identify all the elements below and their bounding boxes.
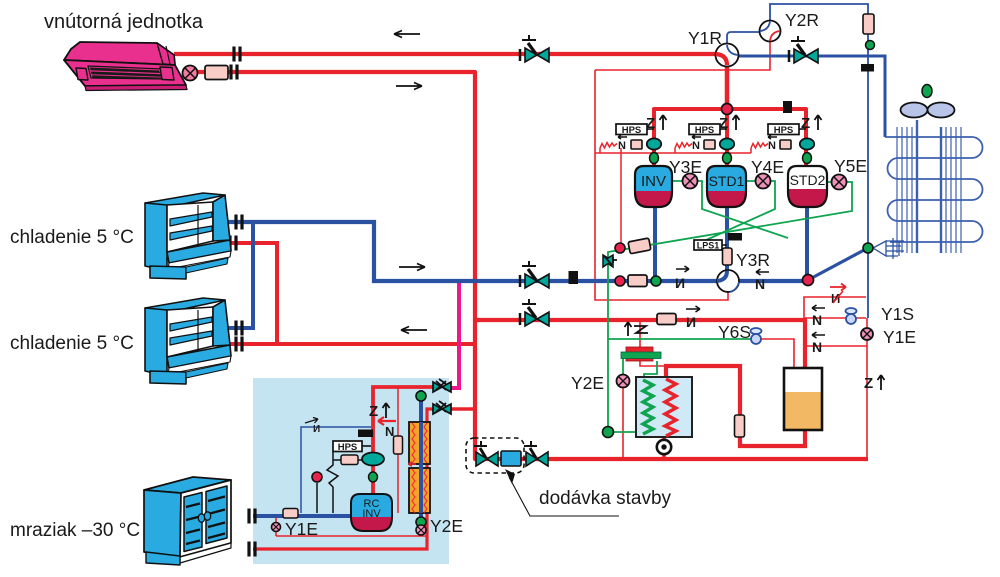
display case 1: [145, 193, 231, 279]
filter pink rect liquid line: [657, 314, 676, 325]
freezer box red service arrow-N: [378, 417, 396, 439]
green damper dot STD1 riser: [723, 153, 732, 164]
wire: oil solenoid line INV to Y3E and cross equalization: [672, 181, 788, 238]
filter pink rect receiver outlet: [735, 415, 745, 437]
junction green dot freezer HX top: [416, 391, 426, 401]
coil distributor triangle and comb: [873, 238, 904, 259]
svg-text:HPS: HPS: [622, 125, 642, 136]
check valve teal ellipse STD1 riser: [720, 138, 734, 149]
relief valve Z-arrow INV: [646, 115, 667, 132]
relief valve Z-arrow receiver side: [864, 375, 885, 392]
oil solenoid Y5E: [832, 175, 847, 190]
condenser coil fins group 1: [897, 127, 912, 253]
svg-text:Y3R: Y3R: [736, 250, 770, 270]
filter pink rect freezer discharge branch: [394, 436, 403, 454]
wire: gas line Y1R to condenser coil: [738, 56, 885, 137]
filter pink rect freezer suction: [283, 509, 298, 519]
wire: magenta cascade discharge line: [449, 281, 459, 388]
svg-text:Y1E: Y1E: [883, 327, 916, 347]
shutoff bars case1 liquid: [230, 236, 236, 251]
leader line to dodavka stavby: [509, 477, 619, 516]
relief valve Z-arrow freezer box: [369, 403, 390, 420]
reversing valve Y3R: [717, 270, 739, 292]
wire: receiver bottom to HX red coil feed: [666, 366, 805, 446]
wire: STD1 suction drop to Y3R: [725, 207, 729, 271]
expansion valve Y1E freezer: [272, 523, 281, 532]
check symbol arrow-I on liquid line: [686, 306, 700, 330]
svg-text:Z: Z: [646, 115, 655, 132]
oil solenoid Y4E: [756, 174, 771, 189]
junction red dot on discharge header: [722, 104, 733, 115]
freezer box bypass valve symbol: [305, 418, 320, 436]
filter pink rect suction line: [628, 275, 647, 287]
junction green dot freezer HX bottom: [416, 517, 426, 527]
check symbol arrow-I on suction line: [675, 266, 689, 291]
service valve arrow-N INV: [618, 135, 627, 152]
filter pink rect oil diagonal (rotated): [628, 238, 651, 254]
plate HX red coil: [665, 379, 676, 436]
shutoff bars freezer liquid: [249, 542, 255, 557]
svg-text:Y4E: Y4E: [751, 157, 784, 177]
wire: suction main from display case 1: [227, 222, 717, 281]
compressor INV body: [635, 166, 672, 207]
expansion valve Y2E freezer: [416, 525, 426, 535]
wire: suction diagonal to coil distributor: [808, 249, 866, 280]
oil solenoid Y3E: [683, 174, 698, 189]
compressor STD1 body: [707, 166, 746, 207]
red adjustable valve symbol upper loop: [830, 284, 846, 307]
economizer / capillary assembly: [621, 347, 661, 361]
wire: Y2E to economizer green stub: [622, 356, 624, 375]
shutoff bars case2 liquid: [236, 337, 242, 352]
svg-text:Y1S: Y1S: [881, 304, 914, 324]
solenoid valve Y1S: [846, 308, 857, 324]
compressor STD2 body: [788, 166, 827, 207]
green damper dot STD2 riser: [803, 153, 812, 164]
flow arrow case2 left: [401, 327, 427, 334]
wire: lower service line to Y1E: [805, 318, 867, 459]
svg-text:Y3E: Y3E: [669, 157, 702, 177]
wire: display case 1 red line: [228, 243, 277, 344]
freezer edge valve lower (liquid out): [433, 401, 451, 414]
shutoff bars case1 suction: [236, 215, 242, 230]
wire: INV HPS stub down to green oil line: [620, 148, 622, 243]
filter pink rect freezer oil line: [341, 455, 358, 465]
sensor black rect near LPS1: [728, 233, 742, 241]
wire: Y1R top to Y2R left: [727, 32, 760, 45]
wire: STD2 suction drop: [805, 207, 809, 279]
svg-text:N: N: [385, 424, 394, 439]
sensor black rect on suction line: [569, 271, 579, 284]
wire: Y1S line: [805, 317, 866, 319]
wire: Y2E liquid stem: [622, 387, 624, 459]
wire: thin red oil/equalization network left border: [595, 70, 728, 300]
junction red dot freezer box: [312, 472, 322, 482]
service valve arrow-N STD2: [768, 135, 777, 152]
relief valve Z-arrow STD2: [801, 115, 822, 132]
wire: right liquid/injection vertical: [867, 34, 869, 318]
compressor RC INV body (freezer unit): [351, 494, 392, 531]
flow arrow top left: [394, 31, 420, 38]
evaporator pressure regulator symbol: [625, 322, 649, 336]
freezer cabinet: [144, 477, 231, 565]
filter pink rect LPS1 riser: [723, 248, 733, 265]
shutoff bars case2 suction: [236, 321, 242, 336]
freezer box oil return zigzag line: [327, 452, 362, 513]
condenser coil header pipes: [917, 120, 941, 253]
svg-text:Y2E: Y2E: [571, 373, 604, 393]
svg-text:mraziak –30 °C: mraziak –30 °C: [10, 520, 140, 541]
wire: Y1R to compressor discharge header (red thick): [725, 64, 730, 109]
svg-text:HPS: HPS: [338, 442, 358, 453]
junction red dot suction line: [615, 276, 625, 286]
shutoff bars indoor gas: [234, 47, 240, 62]
check symbol arrow-N upper right loop: [812, 305, 825, 328]
wire: oil solenoid line STD1 to Y4E: [704, 181, 775, 241]
junction green dot coil distributor: [863, 243, 873, 253]
motorized valve on indoor gas line: [520, 35, 549, 62]
wire: freezer liquid injection thin red: [276, 515, 427, 536]
wire: right side bypass loop top (to blue vertical): [804, 297, 866, 319]
freezer edge valve upper (to magenta): [433, 379, 451, 392]
wire: Y6S red section into receiver top: [760, 339, 794, 368]
junction green dot liquid return top: [866, 41, 875, 50]
capillary zigzag INV: [600, 143, 617, 149]
flow arrow suction right: [399, 264, 425, 271]
svg-text:Y5E: Y5E: [834, 156, 867, 176]
junction green dot HX suction: [603, 427, 614, 438]
capillary zigzag STD1: [675, 143, 692, 149]
freezer cascade HX orange blocks: [409, 422, 430, 513]
dashed field-supply box: [466, 438, 524, 473]
wire: economizer stem from liquid line: [640, 319, 664, 366]
wire: INV suction drop: [653, 207, 657, 281]
wire: display case 2 red line: [225, 342, 475, 346]
capillary zigzag STD2: [751, 143, 768, 149]
svg-text:N: N: [618, 140, 626, 152]
svg-text:N: N: [755, 276, 765, 292]
LPS1 switch box: [694, 240, 727, 251]
svg-text:Y6S: Y6S: [718, 322, 751, 342]
condenser coil serpentine: [885, 137, 983, 242]
service valve on green equalization line: [603, 255, 617, 267]
HPS pressure switch INV: [616, 124, 654, 136]
freezer box green damper dot: [369, 472, 378, 482]
wire: freezer hot gas bypass thin blue: [301, 427, 371, 513]
field supply valve 1: [474, 441, 498, 466]
HPS pressure switch STD1: [689, 124, 727, 136]
wire: freezer cascade HX blue pipe: [419, 390, 423, 522]
svg-text:dodávka stavby: dodávka stavby: [539, 488, 672, 509]
svg-text:И: И: [831, 291, 840, 306]
svg-text:INV: INV: [362, 508, 381, 520]
indoor cassette unit: [64, 42, 187, 91]
HPS pressure switch STD2: [768, 124, 806, 136]
wire: indoor unit gas line (red thick): [174, 52, 717, 56]
wire: oil solenoid line STD2 to Y5E and long equalization diagonal: [608, 182, 852, 432]
shutoff bars indoor liquid: [231, 65, 237, 80]
svg-text:STD1: STD1: [709, 173, 745, 189]
svg-text:Y2E: Y2E: [430, 516, 463, 536]
sensor black rect freezer box: [358, 430, 373, 438]
check valve teal ellipse INV riser: [647, 138, 661, 149]
svg-text:И: И: [675, 275, 685, 291]
svg-text:STD2: STD2: [790, 172, 826, 188]
wire: suction vapor line to Y6S: [608, 338, 751, 340]
plate heat exchanger box: [636, 377, 692, 437]
wire: freezer compressor discharge (in box): [373, 387, 437, 494]
wire: HX green coil top to economizer: [644, 361, 657, 380]
motorized valve on condenser gas line: [789, 36, 818, 63]
svg-text:Y2R: Y2R: [785, 10, 819, 30]
check valve teal ellipse STD2 riser: [800, 138, 814, 149]
wire: suction from Y3R to right junction: [739, 279, 806, 283]
wire: freezer suction line: [253, 514, 351, 518]
solenoid valve Y6S: [751, 328, 762, 344]
wire: STD1 discharge riser: [725, 109, 729, 166]
sensor square STD2: [780, 140, 791, 149]
svg-text:vnútorná jednotka: vnútorná jednotka: [44, 11, 204, 33]
freezer condensing-unit enclosure box: [253, 378, 449, 564]
relief valve Z-arrow STD1: [719, 115, 740, 132]
check symbol arrow-N right of Y3R: [755, 269, 769, 292]
plate HX green coil: [643, 380, 653, 434]
svg-text:chladenie 5 °C: chladenie 5 °C: [10, 333, 134, 354]
expansion valve Y2E mid: [617, 375, 630, 388]
flow arrow liquid down: [396, 83, 422, 90]
wire: HX red coil outlet through sight glass to header: [662, 435, 666, 459]
sensor square INV: [631, 140, 642, 149]
condenser coil fins group 2: [946, 127, 961, 253]
wire: discharge header across compressors: [654, 109, 806, 166]
junction green dot suction INV: [651, 276, 661, 286]
svg-text:И: И: [686, 314, 696, 330]
filter pink rect right liquid vertical: [863, 14, 874, 34]
svg-text:chladenie 5 °C: chladenie 5 °C: [10, 227, 134, 248]
sensor black rect on discharge header: [783, 101, 792, 113]
display case 2: [145, 298, 231, 384]
svg-text:N: N: [812, 312, 822, 328]
wire: freezer oil return pink-rect branch: [397, 388, 399, 513]
motorized valve on liquid line: [520, 299, 549, 326]
junction red dot right suction: [803, 275, 814, 286]
wire: freezer red return line: [253, 409, 437, 549]
service valve arrow-N STD1: [692, 135, 701, 152]
wire: indoor unit liquid line down main red riser to bottom header: [198, 72, 868, 459]
motorized valve on suction line: [520, 261, 549, 288]
wire: branch from freezer box valve to red riser: [449, 407, 475, 411]
fan motor green dot: [922, 85, 932, 98]
junction red dot oil line: [615, 243, 625, 253]
svg-text:Y1E: Y1E: [285, 519, 318, 539]
green damper dot INV riser: [650, 153, 659, 164]
fan blades: [901, 103, 928, 118]
wire: HX green coil bottom connection: [608, 431, 643, 433]
sensor square STD1: [704, 140, 715, 149]
HPS switch freezer box: [333, 441, 371, 453]
svg-text:LPS1: LPS1: [697, 241, 720, 251]
expansion valve Y1E right: [861, 328, 873, 340]
sight glass below HX: [657, 440, 671, 454]
wire: oil line under HPS assemblies: [595, 148, 751, 153]
receiver tank: [784, 368, 822, 430]
shutoff bars freezer suction: [249, 509, 255, 524]
reversing valve Y1R: [716, 44, 739, 67]
svg-text:INV: INV: [641, 173, 666, 190]
sensor black rect on right liquid vertical: [861, 64, 874, 72]
check symbol arrow-N lower right loop: [812, 332, 825, 355]
field supply component (cyan): [501, 451, 521, 466]
svg-text:И: И: [313, 424, 320, 435]
wire: Y2R bottom thin red to border: [595, 41, 770, 70]
freezer box sight dot stem: [316, 483, 318, 513]
expansion valve indoor unit: [183, 66, 198, 81]
wire: display case 2 suction riser: [227, 222, 253, 328]
reversing valve Y2R: [760, 21, 781, 42]
freezer box check valve teal ellipse: [362, 453, 384, 466]
wire: Y2R top line to liquid return vertical: [770, 4, 868, 21]
wire: main liquid line to receiver: [475, 320, 805, 368]
svg-text:Y1R: Y1R: [688, 28, 722, 48]
field supply valve 2: [524, 441, 548, 466]
filter pink rect indoor liquid: [205, 66, 228, 80]
